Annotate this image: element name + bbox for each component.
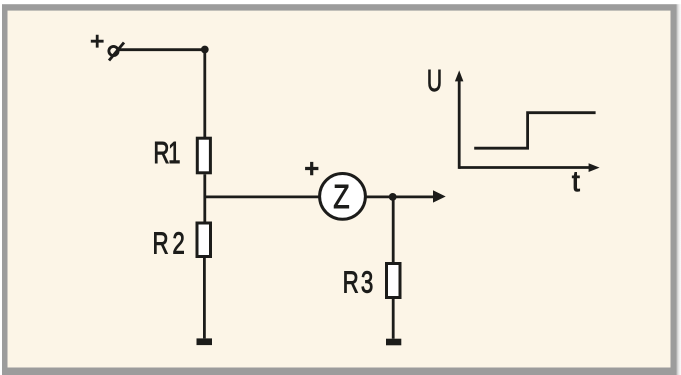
- ground left: [197, 338, 213, 345]
- label U: [427, 63, 442, 98]
- label R1: [153, 135, 179, 169]
- wire R1 to R2: [203, 174, 206, 223]
- Z-diode element Z: [320, 174, 366, 220]
- svg-text:Z: Z: [333, 179, 349, 215]
- label R2: [153, 226, 189, 260]
- wire node A to R1: [203, 50, 206, 139]
- label t: [572, 166, 580, 198]
- terminal plus sign: [91, 35, 104, 48]
- t axis: [459, 163, 599, 172]
- node A junction dot: [201, 46, 209, 54]
- label Z: [333, 179, 349, 215]
- output arrow: [433, 190, 446, 202]
- svg-text:t: t: [572, 166, 580, 198]
- wire terminal to node A: [120, 48, 205, 51]
- svg-text:R1: R1: [153, 135, 179, 169]
- step waveform: [474, 113, 595, 149]
- svg-text:U: U: [427, 63, 442, 98]
- U axis: [455, 70, 464, 168]
- wire R2 to ground: [203, 258, 206, 338]
- plus sign at Z: [305, 162, 318, 175]
- ground right: [386, 339, 401, 346]
- resistor R3: [387, 264, 401, 298]
- wire divider node to Z: [205, 195, 319, 198]
- wire R3 to ground: [392, 299, 395, 339]
- svg-text:R3: R3: [343, 265, 376, 299]
- svg-text:R2: R2: [153, 226, 189, 260]
- resistor R2: [197, 223, 211, 257]
- label R3: [343, 265, 376, 299]
- wire node B to R3: [392, 197, 395, 264]
- node B junction dot: [389, 193, 397, 201]
- wire Z to node B: [366, 195, 434, 198]
- resistor R1: [197, 138, 210, 173]
- input terminal: [109, 43, 124, 61]
